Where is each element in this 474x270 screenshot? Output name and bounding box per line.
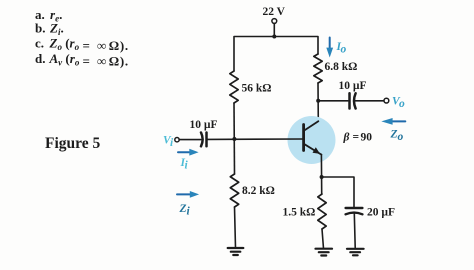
resistor RE 1.5k [283, 194, 327, 229]
node Vo [384, 96, 405, 111]
junction emitter node [320, 175, 324, 179]
arrow Io [326, 38, 346, 58]
svg-text:o: o [398, 131, 404, 143]
svg-text:56 kΩ: 56 kΩ [242, 83, 272, 95]
transistor Q1 [288, 116, 336, 164]
resistor R1 56k [230, 71, 272, 103]
svg-text:1.5 kΩ: 1.5 kΩ [283, 207, 316, 219]
wire emitter [320, 154, 322, 194]
wire emitter lower [322, 229, 324, 249]
capacitor C2 10uF output [339, 80, 367, 109]
svg-text:Av (ro=∞ Ω).: Av (ro=∞ Ω). [49, 51, 129, 69]
wire left branch middle [233, 103, 236, 174]
wire left branch lower [235, 207, 236, 248]
ground emitter [316, 249, 333, 256]
wire bypass top [322, 177, 354, 207]
svg-text:c.: c. [35, 36, 44, 51]
problem statement text [35, 7, 129, 69]
svg-text:o: o [399, 98, 405, 110]
capacitor C1 10uF input [190, 119, 218, 146]
wire output left [318, 100, 348, 102]
svg-text:Figure 5: Figure 5 [45, 135, 100, 152]
svg-text:i: i [185, 160, 189, 172]
svg-text:i: i [170, 137, 174, 149]
junction supply tap [272, 35, 276, 39]
capacitor CE 20uF [346, 207, 395, 219]
resistor RC 6.8k [314, 54, 358, 83]
svg-text:Zo (ro=∞ Ω).: Zo (ro=∞ Ω). [49, 36, 129, 54]
svg-text:6.8 kΩ: 6.8 kΩ [325, 61, 358, 73]
svg-text:b.: b. [35, 21, 45, 36]
resistor R2 8.2k [230, 174, 275, 207]
wire top rail [234, 37, 318, 72]
arrow Zo [381, 118, 405, 143]
svg-text:20 µF: 20 µF [367, 207, 395, 219]
ground bypass [347, 249, 364, 256]
svg-text:i: i [187, 206, 191, 218]
ground left [228, 248, 244, 255]
wire base [207, 138, 304, 140]
svg-text:o: o [341, 44, 347, 56]
node Vi [163, 135, 179, 150]
svg-text:Z: Z [179, 203, 187, 215]
svg-text:8.2 kΩ: 8.2 kΩ [242, 185, 275, 197]
svg-text:d.: d. [35, 51, 45, 66]
arrow Ii [178, 149, 199, 172]
junction base node [232, 137, 236, 141]
svg-text:22 V: 22 V [263, 6, 286, 18]
svg-text:10 µF: 10 µF [339, 80, 367, 92]
svg-text:β=90: β=90 [343, 132, 373, 144]
svg-text:10 µF: 10 µF [190, 119, 218, 131]
wire input left [179, 139, 201, 141]
supply node 22V [263, 6, 286, 23]
wire supply tap [273, 23, 275, 36]
wire collector branch [317, 83, 319, 121]
arrow Zi [177, 191, 199, 218]
svg-text:Z: Z [390, 129, 398, 141]
wire bypass lower [353, 213, 356, 247]
wire output right [355, 100, 384, 102]
junction collector node [316, 99, 320, 103]
